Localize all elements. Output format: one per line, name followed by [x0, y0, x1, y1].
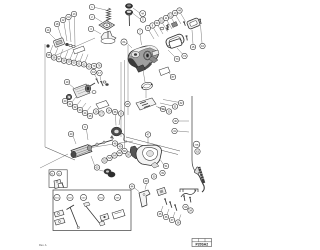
- callout 49: [143, 178, 148, 183]
- cover panel lines: [125, 137, 180, 155]
- callout 37 b: [169, 217, 174, 222]
- front bearing: [66, 94, 72, 100]
- callout 13 row2: [172, 10, 177, 15]
- wavy cord tail: [181, 190, 196, 197]
- callout 38 b: [175, 220, 180, 225]
- callout 23: [77, 107, 82, 112]
- small screw a: [183, 21, 185, 25]
- nut: [66, 43, 69, 45]
- cord vertical: [192, 96, 196, 172]
- slotted base plate: [136, 98, 156, 110]
- callout 28: [125, 101, 130, 106]
- callout 73: [174, 56, 179, 61]
- center vertical leader 1: [127, 45, 129, 115]
- callout 57: [56, 57, 61, 62]
- stand bracket: [139, 190, 150, 207]
- callout 60: [71, 60, 76, 65]
- callout 41: [172, 128, 177, 133]
- cross wrench: [67, 205, 80, 229]
- cord armor: [198, 167, 204, 183]
- callout 35 b: [157, 211, 162, 216]
- bracket in box: [54, 180, 61, 189]
- callout 25: [87, 113, 92, 118]
- svg-text:4A: 4A: [141, 12, 144, 15]
- frame left vertical line: [45, 44, 75, 160]
- callout 36: [112, 109, 117, 114]
- callout 15: [190, 44, 195, 49]
- callout 21: [67, 101, 72, 106]
- callout 16f: [91, 69, 96, 74]
- rear body: [136, 145, 162, 168]
- callout 44 row2: [177, 8, 182, 13]
- carbon brush: [171, 22, 177, 28]
- callout 19: [64, 79, 69, 84]
- brush cap: [160, 27, 163, 30]
- callout 504: [98, 194, 104, 200]
- callout 11 row2: [163, 15, 168, 20]
- callout 65: [117, 151, 122, 156]
- belt leader: [100, 170, 104, 173]
- callout 62b: [57, 171, 62, 176]
- callout 58: [61, 58, 66, 63]
- callout 74: [182, 53, 187, 58]
- gear assembly: [110, 127, 122, 139]
- callout 34b: [188, 208, 193, 213]
- accessory box: [53, 190, 131, 231]
- callout 29: [160, 106, 165, 111]
- gauge bar: [84, 202, 106, 226]
- callout 52: [102, 158, 107, 163]
- callout 5: [140, 17, 145, 22]
- callout 11: [66, 14, 71, 19]
- clip screw 2: [189, 197, 191, 202]
- callout 22: [72, 104, 77, 109]
- callout 30: [151, 174, 156, 179]
- frame diagonal b: [40, 154, 68, 168]
- callout 3: [88, 26, 93, 31]
- box 61-62: [49, 170, 67, 188]
- callout 9m: [82, 124, 87, 129]
- callout 66: [122, 148, 127, 153]
- callout 63: [94, 165, 99, 170]
- svg-text:P20SA2: P20SA2: [195, 243, 208, 247]
- screw b3: [174, 204, 177, 210]
- callout 502: [67, 194, 73, 200]
- svg-text:Rev. A: Rev. A: [39, 243, 47, 247]
- callout 87: [170, 74, 175, 79]
- callout 33: [183, 204, 188, 209]
- belt cover: [130, 146, 138, 159]
- callout 51: [163, 163, 168, 168]
- upper-left diagonal leader: [52, 38, 95, 57]
- callout 50c: [126, 152, 131, 157]
- callout 30m: [166, 109, 171, 114]
- field nut: [106, 84, 109, 86]
- rear cover part: [169, 38, 183, 48]
- callout 40m: [68, 131, 73, 136]
- front grip: [165, 33, 185, 49]
- callout 7: [137, 29, 142, 34]
- callout 55: [46, 52, 51, 57]
- screw b1: [164, 198, 167, 204]
- callout 27: [99, 111, 104, 116]
- callout 31: [172, 104, 177, 109]
- callout 80: [86, 64, 91, 69]
- callout 54 row2: [154, 20, 159, 25]
- callout 17f: [97, 70, 102, 75]
- callout 18: [54, 21, 59, 26]
- gear wire: [121, 133, 127, 141]
- callout 503: [80, 194, 86, 200]
- callout 53: [107, 155, 112, 160]
- shaft leader line: [88, 141, 133, 148]
- center vertical leader 2: [124, 60, 126, 150]
- cord clip channel: [180, 189, 198, 192]
- callout 34: [106, 108, 111, 113]
- screw near box: [61, 183, 63, 188]
- gasket-plate leader: [145, 90, 147, 98]
- callout 26: [93, 109, 98, 114]
- callout 9 row2: [150, 23, 155, 28]
- wrench plate 2: [55, 218, 66, 225]
- callout 16A: [193, 141, 200, 148]
- callout 48: [112, 141, 117, 146]
- callout 61b: [50, 171, 55, 176]
- callout 47: [145, 132, 150, 137]
- cord plug: [194, 167, 204, 192]
- armature: [71, 140, 113, 158]
- clip screw 1: [183, 195, 185, 200]
- knob base: [101, 31, 116, 44]
- callout 16: [200, 43, 205, 48]
- blade holder plate: [112, 210, 125, 220]
- callout 39: [160, 170, 165, 175]
- callout 49b: [117, 144, 122, 149]
- callout 79: [91, 63, 96, 68]
- fan washer: [92, 91, 96, 94]
- callout 24: [82, 110, 87, 115]
- brush cover: [186, 18, 200, 30]
- center vertical leader 3: [120, 62, 122, 137]
- callout 36 b: [163, 214, 168, 219]
- switch part: [157, 187, 166, 195]
- callout 78: [96, 63, 101, 68]
- callout 61: [76, 61, 81, 66]
- housing-gasket leader: [143, 70, 145, 82]
- callout 59: [66, 59, 71, 64]
- washer pair: [69, 44, 72, 46]
- callout 4A: [140, 11, 146, 17]
- knob plate: [99, 21, 115, 31]
- callout 35: [118, 111, 123, 116]
- callout 12 row2: [168, 13, 173, 18]
- field washer: [103, 81, 106, 83]
- field screw 1: [96, 78, 99, 83]
- housing body: [128, 46, 159, 73]
- callout 505: [114, 194, 120, 200]
- screw b2: [169, 201, 172, 207]
- cap 4A: [125, 4, 132, 9]
- name plate 17: [159, 67, 170, 76]
- callout 62: [81, 62, 86, 67]
- callout 10 row2: [159, 18, 164, 23]
- model label box: [192, 239, 212, 247]
- callout 20: [62, 98, 67, 103]
- field screw 2: [100, 81, 103, 86]
- callout 8A: [121, 39, 127, 45]
- callout 56: [51, 55, 56, 60]
- callout 8 row2: [145, 25, 150, 30]
- knob 5: [125, 10, 133, 26]
- callout 13: [71, 11, 76, 16]
- wrench plate 1: [54, 210, 64, 217]
- svg-text:16A: 16A: [195, 143, 199, 146]
- housing side bracket: [152, 50, 159, 56]
- callout 14: [45, 27, 50, 32]
- cover screw: [199, 19, 201, 24]
- callout 63b: [195, 149, 200, 154]
- armature: [73, 83, 95, 98]
- gauge plate: [100, 214, 109, 222]
- callout 1: [89, 4, 94, 9]
- terminal dot: [46, 44, 49, 47]
- brush spring: [167, 24, 169, 30]
- switch block: [53, 38, 65, 48]
- spring S1: [106, 8, 110, 20]
- grip screw: [186, 35, 188, 40]
- frame diagonal a: [45, 147, 75, 160]
- callout 2: [89, 14, 94, 19]
- callout 32: [178, 100, 183, 105]
- callout 40: [173, 118, 178, 123]
- bearing plate: [96, 101, 109, 110]
- callout 44: [129, 184, 134, 189]
- callout 64: [112, 153, 117, 158]
- gasket oval: [141, 81, 153, 90]
- plate part: [73, 46, 85, 54]
- callout 12: [60, 17, 65, 22]
- svg-text:8A: 8A: [123, 41, 126, 44]
- callout 501: [54, 194, 60, 200]
- belt loop: [104, 169, 116, 178]
